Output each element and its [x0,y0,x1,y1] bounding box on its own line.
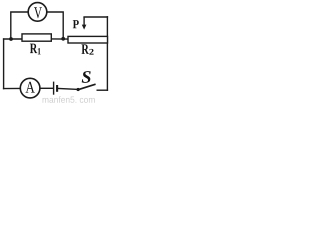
battery cell: short thick plate [56,85,58,92]
wire voltmeter right to junction B [47,12,63,39]
wire battery to switch [58,88,78,91]
wire top-right to slider [84,16,107,18]
ammeter A [20,78,40,98]
label P [73,20,79,28]
switch S contact dot [77,88,80,91]
label S [82,71,91,83]
switch S blade [78,84,96,90]
resistor R1 [22,34,51,41]
watermark [43,96,95,103]
wire bottom-left row [4,87,21,89]
label R1 [30,44,41,55]
wire top-left corner to voltmeter [11,12,28,39]
wire left edge [3,39,5,89]
slider arrow of rheostat [82,17,87,30]
wire R1 row left [4,38,22,40]
wire switch right stub [97,89,107,91]
node junction dot left [9,37,13,41]
wire ammeter to battery [40,87,53,89]
wire R1 to R2 [51,38,68,40]
label R2 [82,44,94,54]
wire right edge [106,17,108,90]
node junction dot right [61,37,65,41]
battery cell: long plate [53,82,55,95]
rheostat R2 [68,36,108,43]
voltmeter V [28,3,47,22]
